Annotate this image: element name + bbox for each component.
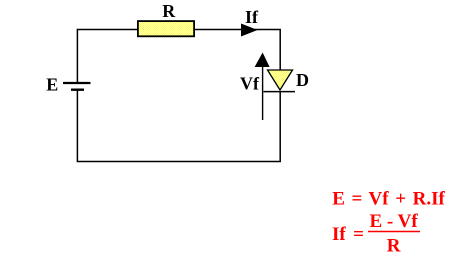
svg-text:D: D [296,70,309,90]
svg-text:Vf: Vf [240,74,260,94]
svg-text:If =: If = [332,224,364,245]
svg-text:E: E [46,75,58,95]
svg-text:R: R [387,236,401,257]
svg-text:E - Vf: E - Vf [370,211,419,232]
svg-text:If: If [245,7,259,27]
svg-text:E = Vf + R.If: E = Vf + R.If [332,189,445,210]
svg-text:R: R [162,1,176,21]
